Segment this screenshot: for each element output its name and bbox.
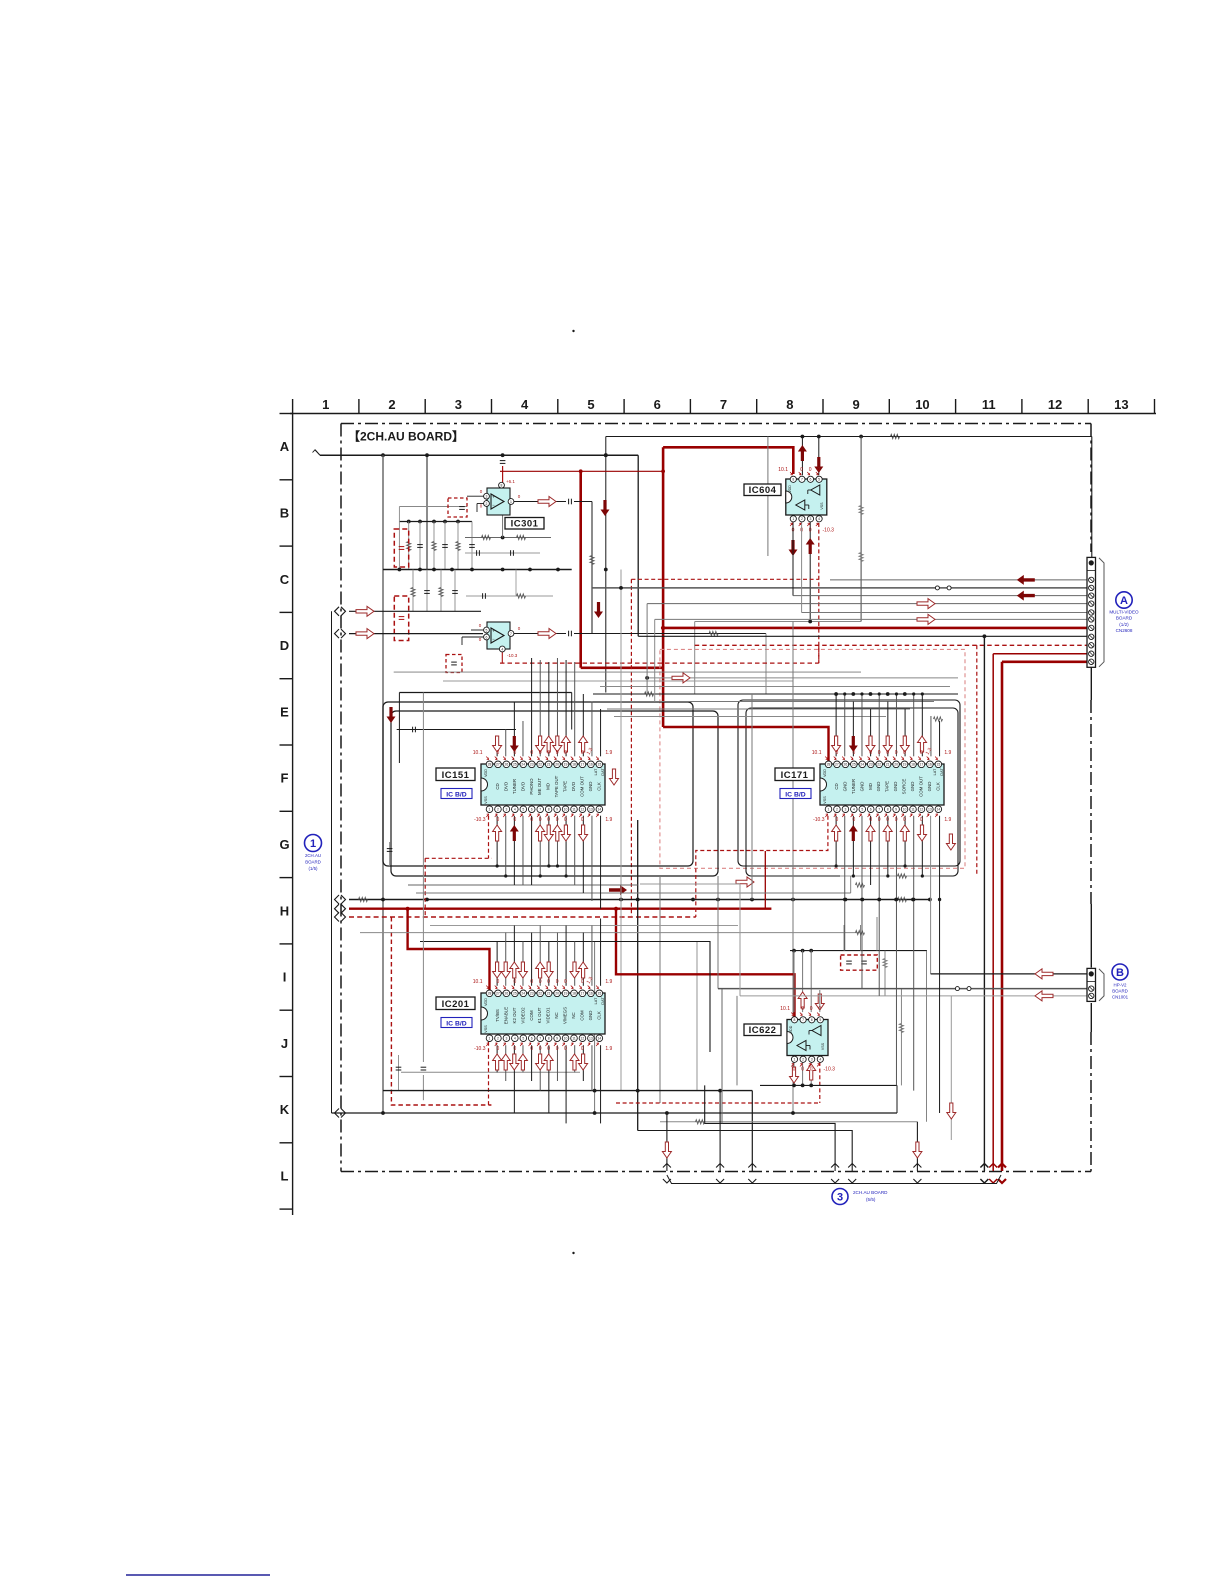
svg-text:5: 5 [861, 808, 863, 812]
svg-text:2: 2 [802, 1058, 804, 1062]
svg-text:TAPE OUT: TAPE OUT [554, 775, 559, 797]
svg-text:CLK: CLK [935, 782, 940, 791]
svg-text:0: 0 [556, 979, 559, 985]
svg-text:0: 0 [497, 750, 500, 756]
svg-text:-10.3: -10.3 [823, 528, 835, 534]
svg-text:0: 0 [886, 750, 889, 756]
svg-text:COM OUT: COM OUT [579, 776, 584, 797]
svg-text:16: 16 [589, 763, 593, 767]
svg-text:25: 25 [513, 763, 517, 767]
svg-text:6: 6 [870, 808, 872, 812]
svg-text:3: 3 [505, 808, 507, 812]
svg-text:PHONO: PHONO [529, 778, 534, 795]
svg-text:15: 15 [597, 992, 601, 996]
svg-text:0: 0 [547, 979, 550, 985]
svg-text:【2CH.AU BOARD】: 【2CH.AU BOARD】 [348, 429, 464, 444]
svg-text:G: G [279, 837, 289, 852]
svg-text:TAPE: TAPE [563, 781, 568, 792]
svg-text:B: B [1116, 967, 1124, 979]
svg-text:0: 0 [547, 1046, 550, 1052]
svg-text:22: 22 [538, 763, 542, 767]
svg-text:0: 0 [793, 1067, 796, 1073]
svg-text:20: 20 [555, 763, 559, 767]
svg-text:1: 1 [322, 397, 329, 412]
svg-text:7: 7 [720, 397, 727, 412]
svg-text:GND: GND [842, 782, 847, 792]
svg-text:TV/BS: TV/BS [495, 1009, 500, 1022]
svg-text:2: 2 [486, 502, 488, 506]
svg-text:0: 0 [852, 817, 855, 823]
svg-text:3: 3 [505, 1037, 507, 1041]
svg-text:IC301: IC301 [511, 519, 539, 530]
svg-text:6: 6 [654, 397, 661, 412]
svg-text:3: 3 [837, 1191, 843, 1203]
svg-text:0: 0 [581, 1046, 584, 1052]
svg-text:1.9: 1.9 [605, 1046, 612, 1052]
svg-text:0: 0 [800, 467, 803, 473]
svg-text:1: 1 [794, 1058, 796, 1062]
svg-text:1: 1 [489, 1037, 491, 1041]
svg-text:0: 0 [581, 750, 584, 756]
svg-text:0: 0 [810, 1006, 813, 1012]
svg-text:0: 0 [903, 817, 906, 823]
svg-text:7: 7 [539, 1037, 541, 1041]
svg-text:4: 4 [521, 397, 529, 412]
svg-text:VDD: VDD [484, 769, 488, 777]
svg-text:DAT: DAT [940, 768, 944, 776]
svg-text:5: 5 [486, 628, 488, 632]
svg-text:BOARD: BOARD [1112, 989, 1128, 994]
svg-text:11: 11 [572, 808, 576, 812]
svg-text:0: 0 [852, 750, 855, 756]
svg-text:V/MEGS: V/MEGS [563, 1007, 568, 1024]
svg-text:0: 0 [895, 750, 898, 756]
svg-text:8: 8 [794, 1018, 796, 1022]
svg-text:CD: CD [495, 783, 500, 789]
svg-text:10.1: 10.1 [780, 1006, 790, 1012]
svg-text:DVD: DVD [571, 782, 576, 791]
svg-text:C: C [280, 572, 290, 587]
svg-text:17: 17 [581, 992, 585, 996]
svg-text:K1 OUT: K1 OUT [537, 1007, 542, 1023]
svg-text:2: 2 [801, 517, 803, 521]
svg-text:26: 26 [844, 763, 848, 767]
svg-text:10.1: 10.1 [778, 467, 788, 473]
svg-text:0: 0 [581, 817, 584, 823]
svg-text:1.9: 1.9 [944, 817, 951, 823]
svg-text:TUNER: TUNER [851, 779, 856, 794]
svg-text:BOARD: BOARD [1116, 616, 1133, 621]
svg-text:F: F [281, 771, 289, 786]
svg-text:13: 13 [928, 808, 932, 812]
svg-text:E: E [280, 704, 289, 719]
svg-text:0: 0 [920, 817, 923, 823]
svg-text:VSS: VSS [821, 1042, 825, 1050]
svg-text:GND: GND [859, 782, 864, 792]
svg-text:7: 7 [802, 1018, 804, 1022]
svg-text:LAT: LAT [933, 768, 937, 775]
svg-text:5: 5 [522, 808, 524, 812]
svg-text:0: 0 [810, 1067, 813, 1073]
svg-text:VDD: VDD [789, 1025, 793, 1033]
svg-text:0: 0 [809, 467, 812, 473]
svg-text:7: 7 [878, 808, 880, 812]
svg-text:28: 28 [488, 763, 492, 767]
svg-text:24: 24 [521, 992, 525, 996]
svg-text:9: 9 [556, 1037, 558, 1041]
svg-text:0: 0 [497, 1046, 500, 1052]
svg-text:GND: GND [927, 782, 932, 792]
svg-text:GND: GND [893, 782, 898, 792]
svg-text:IC622: IC622 [749, 1025, 777, 1036]
svg-text:0: 0 [836, 817, 839, 823]
svg-text:20: 20 [894, 763, 898, 767]
svg-text:1: 1 [310, 838, 316, 850]
svg-text:IC B/D: IC B/D [446, 1021, 466, 1028]
svg-text:0: 0 [530, 817, 533, 823]
svg-text:27: 27 [496, 992, 500, 996]
svg-text:0: 0 [836, 750, 839, 756]
svg-text:0: 0 [895, 817, 898, 823]
svg-text:0: 0 [581, 979, 584, 985]
svg-text:(5/5): (5/5) [866, 1197, 876, 1202]
svg-text:CD: CD [834, 783, 839, 789]
svg-text:4: 4 [514, 808, 516, 812]
svg-text:HP-V2: HP-V2 [1114, 983, 1127, 988]
svg-text:2: 2 [836, 808, 838, 812]
svg-text:6: 6 [811, 1018, 813, 1022]
svg-text:5: 5 [818, 478, 820, 482]
svg-text:D: D [280, 638, 289, 653]
svg-text:10: 10 [903, 808, 907, 812]
svg-text:10: 10 [564, 808, 568, 812]
svg-text:3: 3 [810, 517, 812, 521]
svg-text:0: 0 [497, 817, 500, 823]
svg-text:8: 8 [792, 478, 794, 482]
svg-text:VSS: VSS [823, 796, 827, 804]
svg-text:1: 1 [489, 808, 491, 812]
svg-text:14: 14 [597, 1037, 601, 1041]
svg-text:0: 0 [869, 817, 872, 823]
svg-text:2CH.AU: 2CH.AU [305, 853, 321, 858]
svg-text:15: 15 [936, 763, 940, 767]
svg-text:14: 14 [597, 808, 601, 812]
svg-text:0: 0 [809, 528, 812, 534]
svg-text:IC B/D: IC B/D [446, 792, 466, 799]
svg-text:CN2608: CN2608 [1116, 628, 1133, 633]
svg-text:14: 14 [936, 808, 940, 812]
svg-text:17: 17 [581, 763, 585, 767]
svg-text:VIDEO2: VIDEO2 [520, 1007, 525, 1024]
svg-text:VSS: VSS [820, 502, 824, 510]
svg-text:MD: MD [868, 783, 873, 790]
svg-text:7: 7 [801, 478, 803, 482]
svg-text:26: 26 [505, 763, 509, 767]
svg-text:IC151: IC151 [442, 770, 470, 781]
svg-text:0: 0 [556, 750, 559, 756]
svg-text:0: 0 [530, 750, 533, 756]
svg-text:K2 OUT: K2 OUT [512, 1007, 517, 1023]
svg-text:I: I [283, 970, 287, 985]
svg-text:5: 5 [522, 1037, 524, 1041]
svg-text:15: 15 [597, 763, 601, 767]
svg-text:22: 22 [877, 763, 881, 767]
svg-text:-10.3: -10.3 [474, 817, 486, 823]
svg-text:LAT: LAT [594, 768, 598, 775]
svg-text:11: 11 [572, 1037, 576, 1041]
svg-text:19: 19 [903, 763, 907, 767]
svg-text:MD: MD [546, 783, 551, 790]
svg-text:12: 12 [581, 808, 585, 812]
svg-text:1.9: 1.9 [944, 750, 951, 756]
svg-text:0: 0 [539, 979, 542, 985]
svg-text:10.1: 10.1 [473, 750, 483, 756]
svg-text:0: 0 [513, 979, 516, 985]
svg-text:ME OUT: ME OUT [537, 778, 542, 795]
svg-text:17: 17 [920, 763, 924, 767]
svg-text:23: 23 [530, 763, 534, 767]
svg-text:4: 4 [501, 647, 503, 651]
svg-text:IC B/D: IC B/D [785, 792, 805, 799]
svg-text:1.9: 1.9 [605, 979, 612, 985]
svg-text:27: 27 [835, 763, 839, 767]
svg-text:2: 2 [497, 808, 499, 812]
svg-text:5: 5 [587, 397, 594, 412]
svg-text:19: 19 [564, 763, 568, 767]
svg-text:6: 6 [531, 808, 533, 812]
svg-text:-10.3: -10.3 [824, 1067, 836, 1073]
svg-text:VSS: VSS [484, 796, 488, 804]
svg-text:TUNER: TUNER [512, 779, 517, 794]
svg-text:21: 21 [886, 763, 890, 767]
svg-text:27: 27 [496, 763, 500, 767]
svg-text:0: 0 [869, 750, 872, 756]
svg-text:13: 13 [1114, 397, 1128, 412]
svg-text:CLK: CLK [596, 782, 601, 791]
svg-text:12: 12 [1048, 397, 1062, 412]
svg-text:1: 1 [792, 517, 794, 521]
svg-text:19: 19 [564, 992, 568, 996]
svg-text:L: L [281, 1168, 289, 1183]
svg-text:-10.3: -10.3 [813, 817, 825, 823]
svg-text:0: 0 [539, 1046, 542, 1052]
svg-text:2CH.AU BOARD: 2CH.AU BOARD [853, 1190, 888, 1195]
svg-text:A: A [1120, 595, 1128, 607]
svg-text:10: 10 [564, 1037, 568, 1041]
svg-text:1.9: 1.9 [605, 817, 612, 823]
svg-text:A: A [280, 439, 290, 454]
svg-text:12: 12 [920, 808, 924, 812]
svg-text:8: 8 [786, 397, 793, 412]
svg-text:IC171: IC171 [781, 770, 809, 781]
svg-text:IC201: IC201 [442, 999, 470, 1010]
svg-text:28: 28 [827, 763, 831, 767]
svg-text:6: 6 [810, 478, 812, 482]
svg-text:COM OUT: COM OUT [918, 776, 923, 797]
svg-text:6: 6 [531, 1037, 533, 1041]
svg-text:0: 0 [513, 750, 516, 756]
svg-text:0: 0 [539, 817, 542, 823]
svg-text:3: 3 [486, 495, 488, 499]
svg-text:7: 7 [539, 808, 541, 812]
svg-text:DVD: DVD [503, 782, 508, 791]
svg-text:TAPE: TAPE [885, 781, 890, 792]
svg-text:2: 2 [497, 1037, 499, 1041]
svg-text:GND: GND [588, 782, 593, 792]
svg-text:9: 9 [895, 808, 897, 812]
svg-text:VSS: VSS [484, 1025, 488, 1033]
svg-text:+: + [492, 495, 495, 500]
svg-text:1: 1 [510, 500, 512, 504]
svg-text:0: 0 [556, 1046, 559, 1052]
svg-text:16: 16 [589, 992, 593, 996]
svg-text:23: 23 [530, 992, 534, 996]
svg-text:0: 0 [497, 979, 500, 985]
svg-text:11: 11 [982, 397, 996, 412]
svg-text:18: 18 [572, 992, 576, 996]
svg-text:+: + [492, 629, 495, 634]
svg-text:−: − [492, 503, 495, 508]
svg-text:24: 24 [860, 763, 864, 767]
svg-text:26: 26 [505, 992, 509, 996]
svg-text:CLK: CLK [596, 1011, 601, 1020]
svg-text:0: 0 [547, 750, 550, 756]
svg-text:COM: COM [579, 1010, 584, 1021]
svg-text:DVD: DVD [520, 782, 525, 791]
svg-text:NC: NC [571, 1012, 576, 1018]
svg-text:0: 0 [539, 750, 542, 756]
svg-text:3: 3 [844, 808, 846, 812]
svg-text:24: 24 [521, 763, 525, 767]
svg-text:0: 0 [547, 817, 550, 823]
svg-text:0: 0 [556, 817, 559, 823]
svg-text:J: J [281, 1036, 288, 1051]
svg-text:CN1001: CN1001 [1112, 995, 1129, 1000]
svg-text:3: 3 [455, 397, 462, 412]
svg-text:23: 23 [869, 763, 873, 767]
svg-text:8: 8 [887, 808, 889, 812]
svg-text:3: 3 [811, 1058, 813, 1062]
svg-text:0: 0 [817, 467, 820, 473]
svg-text:8: 8 [548, 808, 550, 812]
svg-text:NC: NC [554, 1012, 559, 1018]
svg-text:0: 0 [801, 1006, 804, 1012]
svg-text:0: 0 [530, 979, 533, 985]
svg-text:COM: COM [529, 1010, 534, 1021]
svg-text:0: 0 [564, 817, 567, 823]
svg-text:VDD: VDD [484, 998, 488, 1006]
svg-text:1: 1 [828, 808, 830, 812]
svg-text:20: 20 [555, 992, 559, 996]
svg-text:1.9: 1.9 [605, 750, 612, 756]
svg-text:VDD: VDD [823, 769, 827, 777]
svg-text:9: 9 [556, 808, 558, 812]
svg-text:0: 0 [886, 817, 889, 823]
svg-text:B: B [280, 505, 289, 520]
svg-text:4: 4 [853, 808, 855, 812]
svg-text:0: 0 [564, 979, 567, 985]
svg-text:0: 0 [818, 1006, 821, 1012]
svg-text:DAT: DAT [601, 997, 605, 1005]
svg-text:5: 5 [819, 1018, 821, 1022]
svg-text:GND: GND [588, 1011, 593, 1021]
svg-text:0: 0 [513, 817, 516, 823]
svg-text:-10.3: -10.3 [474, 1046, 486, 1052]
svg-text:ENABLE: ENABLE [503, 1007, 508, 1024]
svg-text:MULTI-VIDEO: MULTI-VIDEO [1109, 610, 1139, 615]
svg-text:(1/2): (1/2) [1119, 622, 1129, 627]
svg-text:BOARD: BOARD [305, 860, 321, 865]
svg-text:0: 0 [513, 1046, 516, 1052]
svg-text:18: 18 [911, 763, 915, 767]
svg-text:22: 22 [538, 992, 542, 996]
svg-text:H: H [280, 903, 289, 918]
svg-text:13: 13 [589, 808, 593, 812]
svg-text:VDD: VDD [788, 485, 792, 493]
svg-text:21: 21 [547, 763, 551, 767]
svg-text:25: 25 [852, 763, 856, 767]
svg-text:7: 7 [510, 632, 512, 636]
svg-text:11: 11 [911, 808, 915, 812]
svg-text:4: 4 [514, 1037, 516, 1041]
svg-text:IC604: IC604 [749, 485, 777, 496]
svg-text:GND: GND [876, 782, 881, 792]
svg-text:0: 0 [920, 750, 923, 756]
svg-text:8: 8 [501, 484, 503, 488]
svg-text:0: 0 [878, 817, 881, 823]
svg-text:-10.3: -10.3 [507, 653, 518, 658]
svg-text:0: 0 [878, 750, 881, 756]
svg-text:8: 8 [548, 1037, 550, 1041]
svg-text:28: 28 [488, 992, 492, 996]
svg-text:6: 6 [486, 635, 488, 639]
svg-text:+6.1: +6.1 [506, 479, 515, 484]
svg-text:0: 0 [801, 1067, 804, 1073]
svg-text:10: 10 [915, 397, 929, 412]
svg-text:0: 0 [564, 750, 567, 756]
svg-text:2: 2 [388, 397, 395, 412]
svg-text:DAT: DAT [601, 768, 605, 776]
svg-text:12: 12 [581, 1037, 585, 1041]
svg-text:10.1: 10.1 [812, 750, 822, 756]
svg-text:18: 18 [572, 763, 576, 767]
svg-text:16: 16 [928, 763, 932, 767]
svg-text:4: 4 [818, 517, 820, 521]
svg-text:K: K [280, 1102, 290, 1117]
svg-text:GND: GND [910, 782, 915, 792]
svg-text:25: 25 [513, 992, 517, 996]
svg-text:13: 13 [589, 1037, 593, 1041]
svg-text:VIDEO1: VIDEO1 [546, 1007, 551, 1024]
svg-text:10.1: 10.1 [473, 979, 483, 985]
svg-text:SORCE: SORCE [902, 779, 907, 795]
svg-text:−: − [492, 637, 495, 642]
svg-text:0: 0 [564, 1046, 567, 1052]
svg-text:0: 0 [903, 750, 906, 756]
svg-text:4: 4 [819, 1058, 821, 1062]
svg-text:9: 9 [853, 397, 860, 412]
svg-text:LAT: LAT [594, 997, 598, 1004]
svg-text:21: 21 [547, 992, 551, 996]
svg-text:(1/5): (1/5) [308, 866, 318, 871]
svg-text:0: 0 [530, 1046, 533, 1052]
